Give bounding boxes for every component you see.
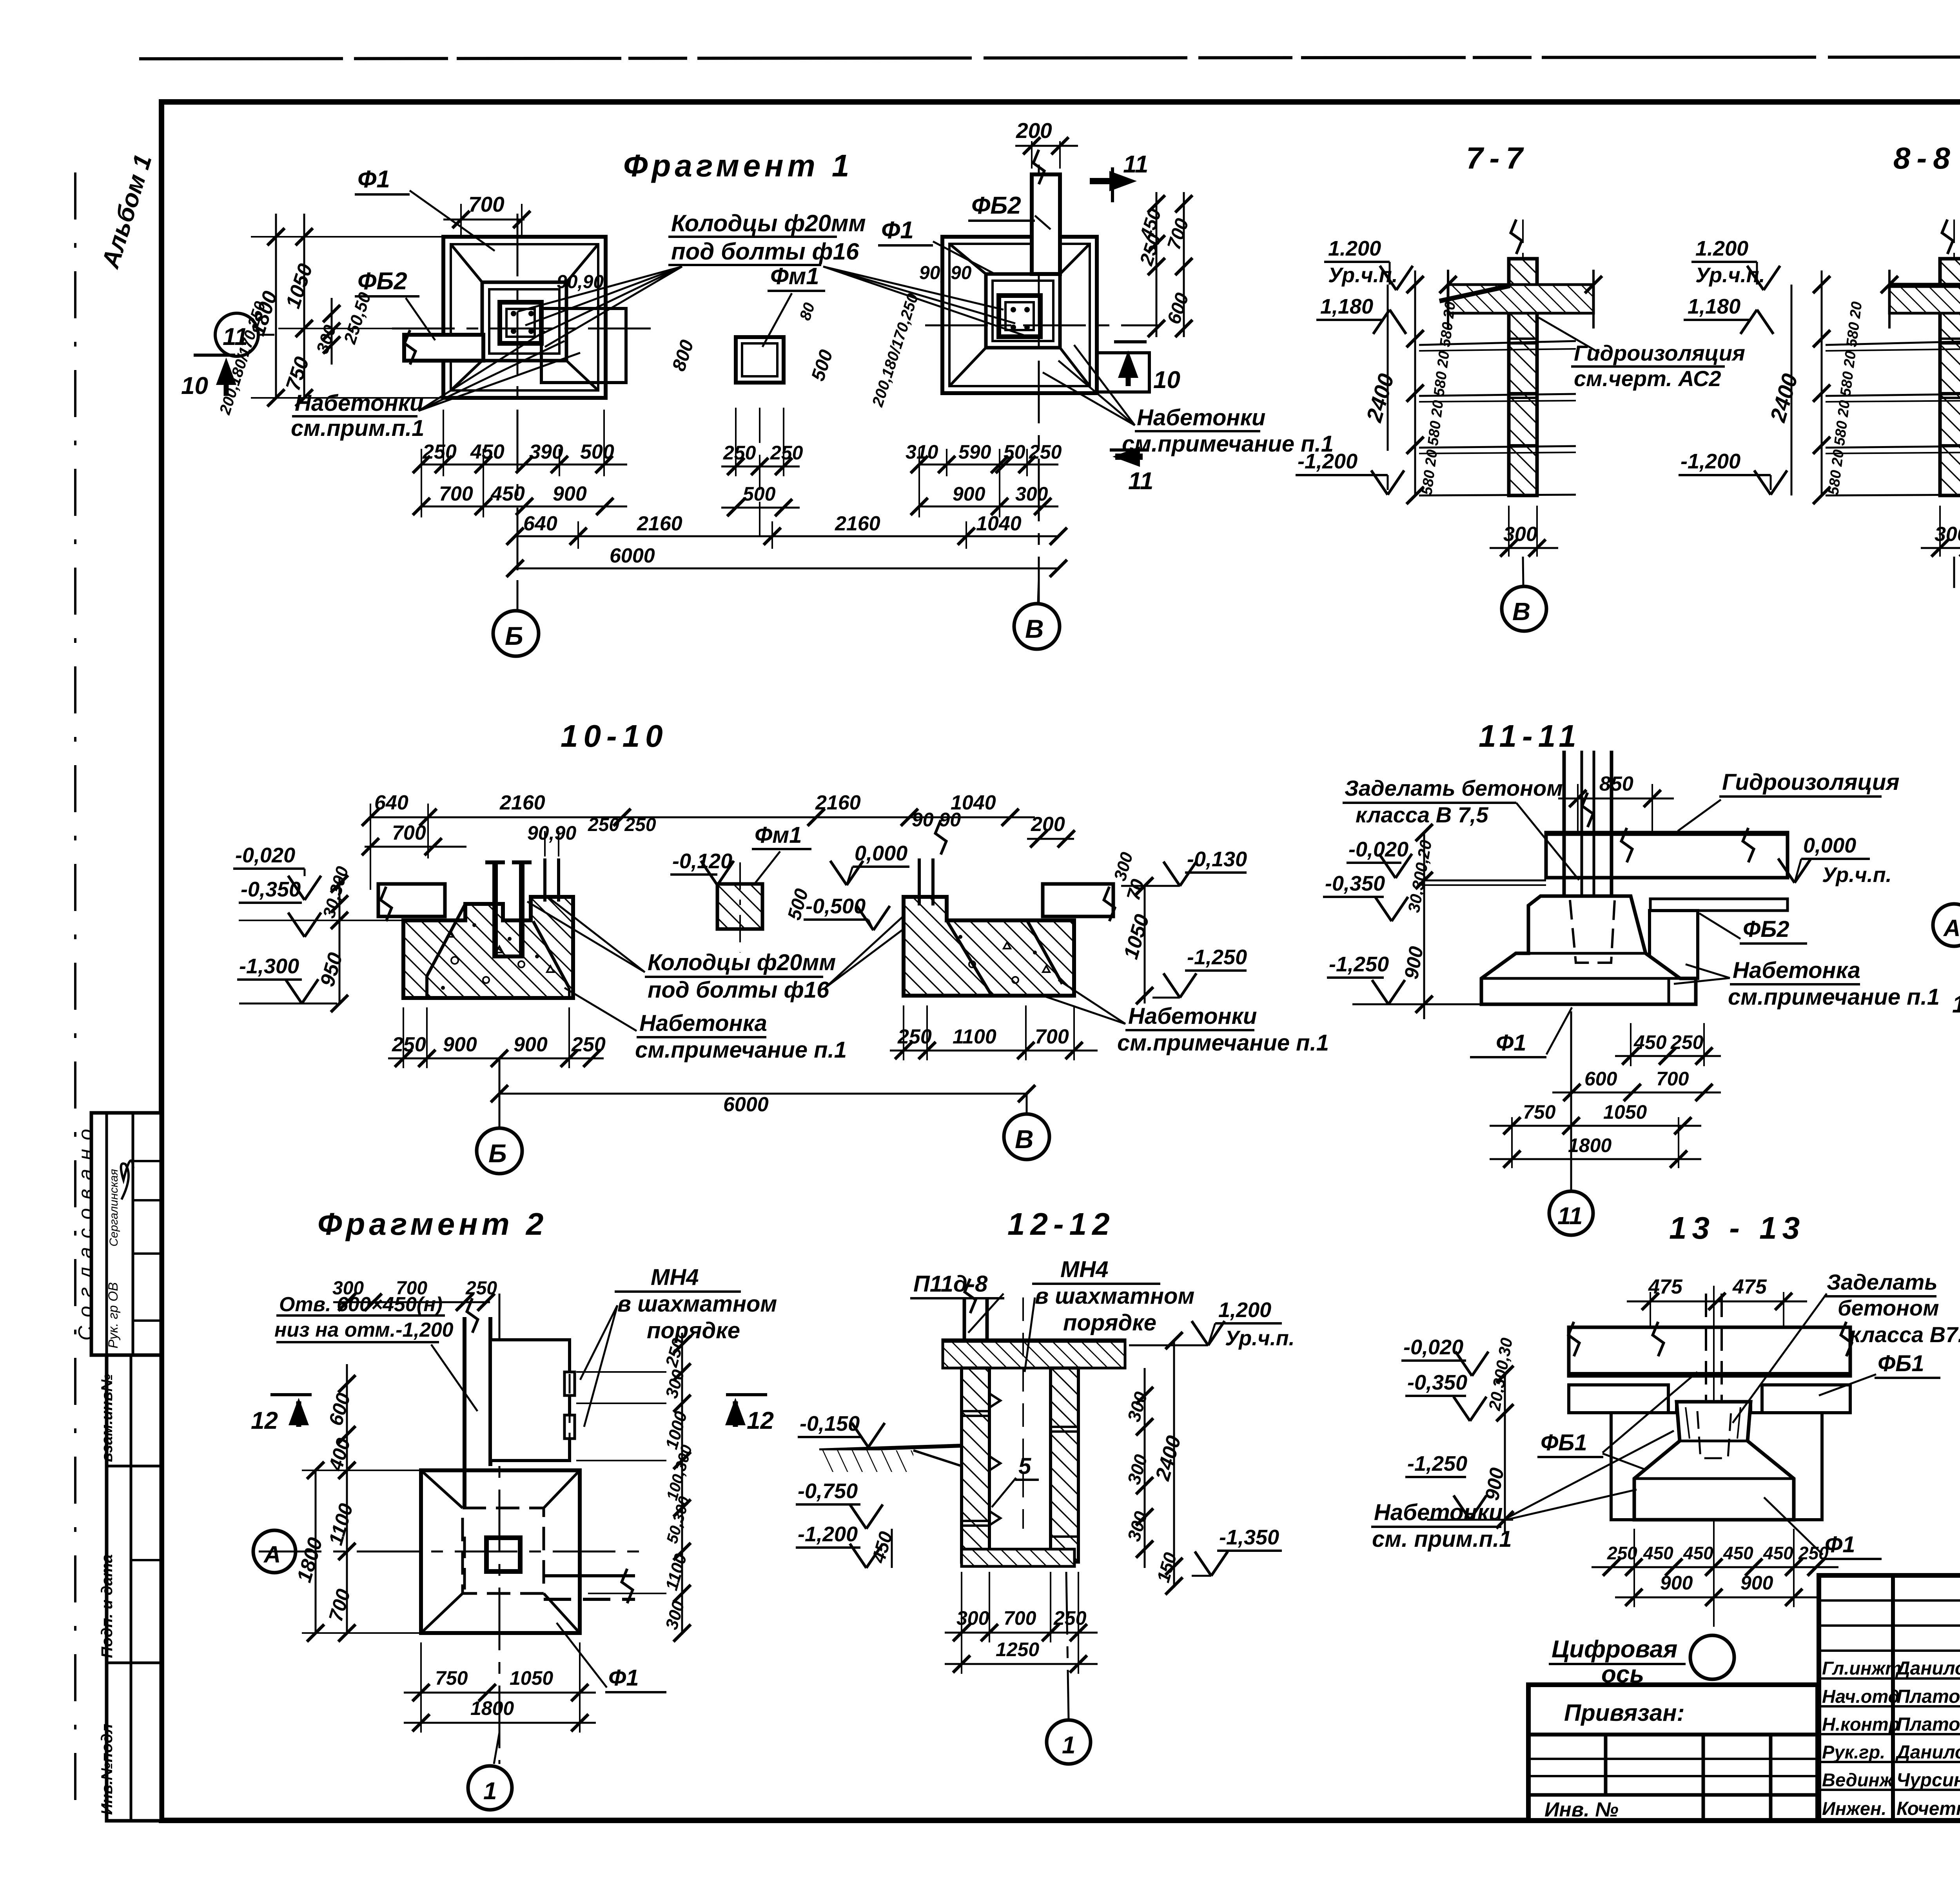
svg-text:1050: 1050 <box>510 1667 553 1689</box>
section 11-11 floor panel <box>1546 828 1788 878</box>
section 13-13 zadelat label <box>1733 1270 1960 1423</box>
svg-text:10: 10 <box>1153 367 1180 394</box>
fragment2 panel rect <box>490 1340 575 1461</box>
svg-text:2160: 2160 <box>499 791 545 814</box>
svg-text:Ф1: Ф1 <box>1496 1030 1526 1056</box>
svg-text:1100: 1100 <box>953 1025 996 1048</box>
svg-text:900: 900 <box>953 483 985 505</box>
svg-text:5: 5 <box>1018 1453 1031 1479</box>
fragment1 plan B bolt holes <box>511 311 534 334</box>
svg-text:-0,020: -0,020 <box>235 844 295 867</box>
svg-text:Гидроизоляция: Гидроизоляция <box>1722 769 1900 795</box>
svg-text:13: 13 <box>1952 991 1960 1018</box>
section 10-10 floor slab left <box>378 884 445 921</box>
svg-text:300: 300 <box>1503 523 1537 546</box>
fragment2 axis circle A <box>253 1530 296 1573</box>
svg-text:в шахматном: в шахматном <box>617 1291 777 1317</box>
fragment1 plan V FB2 vertical bar <box>1015 118 1078 274</box>
svg-text:Подп. и дата: Подп. и дата <box>98 1554 116 1658</box>
fragment2 axis circle 1 <box>468 1733 512 1810</box>
section 12-12 top slab <box>943 1340 1125 1368</box>
fragment1 plan B left dim chains <box>216 214 443 417</box>
svg-text:475: 475 <box>1648 1276 1683 1298</box>
fragment2 left dim chains <box>293 1364 421 1642</box>
section 13-13 FB1 labels <box>1537 1351 1940 1470</box>
section 10-10 axis circle V <box>1004 1094 1049 1159</box>
svg-text:в шахматном: в шахматном <box>1035 1283 1194 1309</box>
svg-text:6000: 6000 <box>723 1093 769 1116</box>
section 10-10 bottom dims <box>388 1007 1035 1116</box>
svg-text:90,90: 90,90 <box>527 822 576 844</box>
svg-text:900: 900 <box>514 1033 548 1056</box>
section 8-8 column <box>1940 220 1960 495</box>
section 13-13 left levels <box>1401 1335 1516 1533</box>
section 12-12 bottom dims <box>945 1572 1098 1674</box>
fragment2 F1 label <box>557 1623 666 1692</box>
svg-text:12: 12 <box>747 1407 774 1434</box>
svg-text:-0,020: -0,020 <box>1348 838 1408 861</box>
svg-text:850: 850 <box>1599 773 1633 795</box>
svg-text:450: 450 <box>1723 1543 1753 1563</box>
svg-text:700: 700 <box>1035 1025 1069 1048</box>
section 10-10 nabetonka label <box>564 988 847 1063</box>
svg-text:см.примечание п.1: см.примечание п.1 <box>1117 1030 1329 1056</box>
svg-text:-0,020: -0,020 <box>1403 1335 1463 1359</box>
svg-text:ФБ2: ФБ2 <box>1743 916 1789 942</box>
svg-text:250: 250 <box>770 442 803 464</box>
svg-text:Фрагмент 1: Фрагмент 1 <box>623 148 853 183</box>
svg-text:Платонова: Платонова <box>1896 1686 1960 1707</box>
svg-text:-0,350: -0,350 <box>1407 1371 1467 1394</box>
section 10-10 axis circle B <box>477 1058 522 1174</box>
svg-text:8-8: 8-8 <box>1893 141 1956 175</box>
svg-text:10-10: 10-10 <box>561 719 668 753</box>
svg-text:см.прим.п.1: см.прим.п.1 <box>291 416 424 441</box>
svg-text:250: 250 <box>897 1025 932 1048</box>
fragment1 plan B nabetonka pad <box>541 308 626 383</box>
svg-text:-1,200: -1,200 <box>1298 450 1357 473</box>
section 8-8 slab <box>1881 270 1960 328</box>
fragment 2 label <box>318 1207 547 1241</box>
fragment1 plan V right dim chain <box>1136 192 1193 337</box>
section 11-11 footing <box>1481 896 1696 1004</box>
privyazan box <box>1528 1685 1818 1821</box>
svg-text:600: 600 <box>1584 1068 1617 1090</box>
svg-text:Нач.отд: Нач.отд <box>1822 1686 1900 1707</box>
svg-text:700: 700 <box>396 1278 427 1299</box>
section 10-10 left footing block <box>403 897 573 998</box>
svg-text:1.200: 1.200 <box>1328 237 1381 260</box>
section 10-10 right nabetonki label <box>1043 980 1329 1056</box>
svg-text:500: 500 <box>743 483 776 505</box>
svg-text:Инв.№подл: Инв.№подл <box>98 1724 116 1815</box>
svg-text:900: 900 <box>1660 1572 1693 1594</box>
svg-text:250: 250 <box>571 1033 606 1056</box>
svg-text:взам.инв№: взам.инв№ <box>98 1374 116 1462</box>
fragment1 label Fm1 <box>762 263 825 347</box>
section 12-12 floor slab <box>962 1549 1074 1566</box>
svg-text:700: 700 <box>439 483 473 505</box>
svg-text:450: 450 <box>1633 1031 1667 1053</box>
section 11-11 F1 label <box>1470 1007 1572 1057</box>
svg-text:700: 700 <box>1004 1607 1036 1629</box>
svg-text:450: 450 <box>1643 1543 1673 1563</box>
fragment2 right bar <box>544 1569 635 1603</box>
section 10-10 Fm1 labels and square <box>670 822 909 953</box>
title block signature table <box>1819 1575 1960 1821</box>
section 13-13 label <box>1669 1210 1805 1245</box>
svg-text:Гл.инжт: Гл.инжт <box>1822 1658 1902 1678</box>
svg-text:Данилов: Данилов <box>1895 1658 1960 1679</box>
svg-text:700: 700 <box>392 822 426 844</box>
section 8-8 label <box>1893 141 1956 175</box>
svg-text:П11д-8: П11д-8 <box>913 1271 988 1297</box>
fragment1 plan V section marks <box>1090 151 1180 495</box>
svg-text:МН4: МН4 <box>651 1265 699 1290</box>
svg-text:0,000: 0,000 <box>1803 834 1856 857</box>
section 13-13 bolt dashed <box>1706 1286 1722 1627</box>
section 11-11 label <box>1479 719 1582 753</box>
svg-text:900: 900 <box>1740 1572 1773 1594</box>
fragment1 label nabetonki left <box>291 331 580 441</box>
fragment2 plan footing <box>421 1470 580 1633</box>
svg-text:10: 10 <box>181 372 208 399</box>
section 12-12 P11d-8 label <box>910 1271 1004 1333</box>
svg-text:Набетонка: Набетонка <box>1733 958 1860 983</box>
section 7-7 levels <box>1296 237 1413 495</box>
fragment2 bottom dims <box>404 1642 596 1733</box>
svg-text:Б: Б <box>505 621 523 650</box>
section 12-12 label <box>1007 1207 1115 1241</box>
section 12-12 label 5 <box>992 1453 1039 1507</box>
fragment1 plan B axis lines <box>392 214 651 611</box>
svg-text:300: 300 <box>1015 483 1048 505</box>
svg-text:475: 475 <box>1732 1276 1767 1298</box>
svg-text:А: А <box>1943 915 1960 941</box>
svg-text:Ф1: Ф1 <box>881 217 914 244</box>
svg-text:Привязан:: Привязан: <box>1564 1700 1684 1726</box>
svg-text:300: 300 <box>956 1607 989 1629</box>
svg-text:Сергалинская: Сергалинская <box>107 1169 120 1247</box>
fragment1 label FB2 plan V <box>968 192 1051 229</box>
svg-text:Цифровая: Цифровая <box>1552 1636 1677 1663</box>
fragment 1 label <box>623 148 853 183</box>
svg-text:200: 200 <box>1016 118 1052 143</box>
fragment1 plan V footing outline <box>942 237 1097 393</box>
svg-text:Ур.ч.п.: Ур.ч.п. <box>1822 863 1892 887</box>
svg-text:1040: 1040 <box>976 512 1022 535</box>
fragment1 plan V 90 90 dim <box>869 263 971 409</box>
fragment2 top dims <box>332 1278 497 1311</box>
svg-text:Ф1: Ф1 <box>608 1665 639 1691</box>
section 7-7 column <box>1509 220 1537 495</box>
fragment1 label F1 left <box>355 166 495 251</box>
svg-text:13 - 13: 13 - 13 <box>1669 1210 1805 1245</box>
svg-text:Заделать бетоном: Заделать бетоном <box>1345 776 1563 800</box>
svg-text:11: 11 <box>223 323 248 350</box>
svg-text:250: 250 <box>392 1033 426 1056</box>
svg-text:Б: Б <box>488 1139 507 1168</box>
svg-text:640: 640 <box>523 512 557 535</box>
section 12-12 axis circle 1 <box>1047 1572 1091 1764</box>
fragment2 axis lines <box>259 1294 651 1764</box>
section 13-13 dim 475 475 <box>1627 1276 1807 1333</box>
svg-text:6000: 6000 <box>610 544 655 567</box>
svg-text:11: 11 <box>1557 1203 1583 1230</box>
section 10-10 label <box>561 719 668 753</box>
svg-text:см.черт. АС2: см.черт. АС2 <box>1574 366 1721 391</box>
fragment1 label kolodtsy <box>517 210 1027 347</box>
section 7-7 label <box>1466 141 1529 175</box>
svg-text:700: 700 <box>468 192 505 216</box>
fragment1 plan B FB2 bar <box>404 330 483 365</box>
svg-text:Вединж: Вединж <box>1822 1769 1894 1790</box>
svg-text:590: 590 <box>958 441 991 463</box>
section 10-10 right dims <box>912 809 1247 1004</box>
svg-text:90, 90: 90, 90 <box>919 263 972 283</box>
sheet top edge dashed line <box>139 56 1960 59</box>
svg-text:450: 450 <box>490 483 525 505</box>
fragment1 plan V axis lines <box>925 165 1160 604</box>
fragment1 plan V bolt holes <box>1011 307 1030 330</box>
fragment1 axis circle B <box>493 580 539 656</box>
svg-text:250: 250 <box>723 442 756 464</box>
svg-text:В: В <box>1512 597 1530 626</box>
fragment1 section mark 10 left <box>181 355 236 399</box>
svg-text:-1,250: -1,250 <box>1187 945 1247 969</box>
svg-text:250: 250 <box>1670 1031 1704 1053</box>
section 10-10 right bottom dims <box>890 1005 1098 1060</box>
section 7-7 bottom dim 300 <box>1490 506 1558 557</box>
svg-text:-0,750: -0,750 <box>798 1479 858 1503</box>
svg-text:12-12: 12-12 <box>1007 1207 1115 1241</box>
svg-text:порядке: порядке <box>1063 1310 1156 1335</box>
section 10-10 right floor slab <box>1043 850 1137 921</box>
section 12-12 level 1200 <box>1129 1298 1295 1350</box>
svg-text:50: 50 <box>1004 441 1025 463</box>
section 12-12 right wall <box>1051 1368 1078 1562</box>
section 11-11 FB2 label <box>1699 913 1807 944</box>
svg-text:Ф1: Ф1 <box>1825 1532 1855 1557</box>
fragment1 label FB2 left <box>355 268 435 340</box>
svg-text:Заделать: Заделать <box>1827 1270 1938 1294</box>
fragment1 plan B bottom dim rows <box>413 410 1067 577</box>
section 12-12 MN4 label <box>1025 1257 1194 1372</box>
svg-text:900: 900 <box>443 1033 477 1056</box>
svg-text:см. прим.п.1: см. прим.п.1 <box>1372 1526 1512 1552</box>
svg-text:11-11: 11-11 <box>1479 719 1582 753</box>
svg-text:250: 250 <box>1798 1543 1829 1563</box>
section 11-11 levels left <box>1323 824 1482 1019</box>
section 11-11 level line -0.350 <box>1421 880 1546 885</box>
section 13-13 nabetonka block <box>1611 1402 1822 1520</box>
section 12-12 left wall <box>962 1368 989 1562</box>
svg-text:низ на отм.-1,200: низ на отм.-1,200 <box>274 1319 454 1341</box>
svg-text:300: 300 <box>1935 523 1960 546</box>
svg-text:-1,200: -1,200 <box>798 1522 858 1546</box>
svg-text:250 250: 250 250 <box>588 815 656 835</box>
section 12-12 left levels <box>796 1412 897 1568</box>
svg-text:2160: 2160 <box>835 512 880 535</box>
fragment2 section marks 12 <box>251 1395 774 1434</box>
svg-text:под болты ф16: под болты ф16 <box>648 977 829 1003</box>
svg-text:Ур.ч.п.: Ур.ч.п. <box>1225 1326 1295 1350</box>
svg-text:Фм1: Фм1 <box>770 263 819 289</box>
svg-text:Кочеткова: Кочеткова <box>1896 1798 1960 1819</box>
svg-text:Н.контр: Н.контр <box>1822 1714 1900 1735</box>
svg-text:300: 300 <box>332 1278 364 1299</box>
svg-text:12: 12 <box>251 1407 278 1434</box>
svg-text:2160: 2160 <box>637 512 682 535</box>
svg-text:Рук. гр ОВ: Рук. гр ОВ <box>106 1282 121 1348</box>
section 7-7 slab <box>1439 270 1602 328</box>
svg-text:Набетонки: Набетонки <box>295 390 423 416</box>
svg-text:класса В7.5: класса В7.5 <box>1849 1322 1960 1347</box>
fragment2 right dim chain <box>576 1333 696 1642</box>
svg-text:500: 500 <box>580 441 614 463</box>
svg-text:1,200: 1,200 <box>1218 1298 1271 1322</box>
left sidebar table B (Inv/Podp) <box>98 1355 161 1821</box>
svg-text:2160: 2160 <box>815 791 861 814</box>
svg-text:см.примечание п.1: см.примечание п.1 <box>635 1037 847 1063</box>
svg-text:Набетонки: Набетонки <box>1137 405 1265 430</box>
svg-text:Гидроизоляция: Гидроизоляция <box>1574 341 1745 365</box>
svg-text:450: 450 <box>1683 1543 1713 1563</box>
svg-text:ФБ2: ФБ2 <box>358 268 407 295</box>
svg-text:Фм1: Фм1 <box>755 822 802 848</box>
svg-text:ФБ1: ФБ1 <box>1541 1430 1587 1455</box>
svg-text:Чурсина: Чурсина <box>1896 1770 1960 1791</box>
section 10-10 kolodtsy label <box>527 898 935 1003</box>
svg-text:Рук.гр.: Рук.гр. <box>1822 1742 1885 1762</box>
svg-text:Инжен.: Инжен. <box>1822 1798 1886 1819</box>
section 13-13 top floor panel <box>1568 1322 1852 1376</box>
svg-text:390: 390 <box>529 441 563 463</box>
svg-text:1.200: 1.200 <box>1695 237 1748 260</box>
section 12-12 anchors dashed line <box>989 1297 1023 1529</box>
svg-text:А: А <box>263 1541 281 1568</box>
fragment3 axis circle A <box>1933 904 1960 946</box>
svg-text:МН4: МН4 <box>1060 1257 1108 1282</box>
svg-text:ФБ2: ФБ2 <box>971 192 1021 219</box>
svg-text:250: 250 <box>1053 1607 1087 1629</box>
section 13-13 second row panels <box>1569 1385 1850 1413</box>
section 7-7 axis circle V <box>1502 557 1546 631</box>
fragment2 label otv <box>274 1293 477 1411</box>
section 8-8 bottom dim 300 <box>1921 506 1960 588</box>
fragment1 plan V bottom dims <box>906 441 1062 517</box>
section 12-12 ground left <box>819 1446 962 1472</box>
section 11-11 nabetonka label <box>1674 958 1940 1010</box>
fragment1 label nabetonki plan V <box>1043 345 1334 457</box>
section 13-13 tsifrovaya os <box>1549 1635 1734 1688</box>
svg-text:Колодцы ф20мм: Колодцы ф20мм <box>671 210 866 236</box>
svg-text:250: 250 <box>422 441 457 463</box>
svg-text:900: 900 <box>553 483 587 505</box>
section 13-13 footing F1 <box>1634 1402 1794 1520</box>
section 10-10 bolts right part <box>545 858 559 902</box>
left sidebar table A (Soglasovano) <box>74 1113 161 1355</box>
svg-text:порядке: порядке <box>647 1318 740 1343</box>
svg-text:Инв. №: Инв. № <box>1544 1798 1619 1821</box>
section 7-7 dim chain 2400 <box>1361 270 1576 504</box>
left outer dash-dot line <box>74 172 76 1823</box>
fragment1 plan V nabetonka pad <box>1097 353 1149 392</box>
svg-text:см.примечание п.1: см.примечание п.1 <box>1728 984 1940 1010</box>
section 11-11 zadelat label <box>1343 776 1579 880</box>
svg-text:450: 450 <box>1763 1543 1793 1563</box>
section 11-11 lower right slab and nabetonka block <box>1650 899 1788 978</box>
svg-text:Ф1: Ф1 <box>358 166 390 193</box>
section 11-11 gidroizol label <box>1678 769 1900 831</box>
fragment1 plan B top dim 700 <box>443 192 530 235</box>
svg-text:Данилова: Данилова <box>1895 1742 1960 1763</box>
svg-text:7-7: 7-7 <box>1466 141 1529 175</box>
svg-text:Набетонки: Набетонки <box>1374 1500 1503 1525</box>
fragment1 section mark 11 circle left <box>215 313 274 356</box>
section 12-12 wall stub above <box>964 1279 987 1340</box>
svg-text:1800: 1800 <box>470 1697 514 1719</box>
svg-text:450: 450 <box>470 441 505 463</box>
svg-text:11: 11 <box>1123 151 1148 178</box>
svg-text:Набетонка: Набетонка <box>639 1011 767 1036</box>
svg-text:750: 750 <box>1523 1101 1556 1123</box>
section 8-8 levels <box>1679 237 1787 495</box>
fragment3 section mark 13 left <box>1952 980 1960 1018</box>
svg-text:90 90: 90 90 <box>912 809 961 831</box>
section 13-13 F1 label <box>1764 1497 1882 1559</box>
svg-text:-0,350: -0,350 <box>241 878 301 901</box>
svg-text:1: 1 <box>483 1778 497 1805</box>
svg-text:1: 1 <box>1062 1732 1075 1759</box>
svg-text:700: 700 <box>1656 1068 1689 1090</box>
svg-text:Платонова: Платонова <box>1896 1714 1960 1735</box>
svg-text:250: 250 <box>465 1278 497 1299</box>
svg-text:1250: 1250 <box>996 1639 1039 1660</box>
svg-text:Колодцы ф20мм: Колодцы ф20мм <box>648 950 836 975</box>
fragment2 label MN4 <box>580 1265 777 1427</box>
fragment1 axis circle V <box>1014 580 1060 649</box>
svg-text:1800: 1800 <box>1568 1134 1612 1156</box>
section 11-11 column above <box>1564 751 1612 956</box>
section 10-10 levels left <box>233 844 403 1003</box>
svg-text:1,180: 1,180 <box>1688 295 1740 318</box>
svg-text:В: В <box>1025 614 1044 643</box>
svg-text:-0,350: -0,350 <box>1325 872 1385 895</box>
fragment1 label F1 plan V <box>878 217 996 274</box>
album vertical label <box>96 151 157 272</box>
svg-text:640: 640 <box>374 791 408 814</box>
section 11-11 dim 850 <box>1558 773 1674 833</box>
svg-text:1,180: 1,180 <box>1320 295 1373 318</box>
section 8-8 dim chain 2400 <box>1765 270 1960 504</box>
svg-text:бетоном: бетоном <box>1838 1296 1939 1320</box>
fragment1 plan B footing outline <box>443 237 606 398</box>
svg-text:класса В 7,5: класса В 7,5 <box>1356 802 1488 827</box>
svg-text:-1,250: -1,250 <box>1329 953 1389 976</box>
svg-text:-1,200: -1,200 <box>1681 450 1740 473</box>
svg-text:-1,300: -1,300 <box>239 954 299 978</box>
section 11-11 axis circle 11 <box>1549 1011 1593 1235</box>
svg-text:В: В <box>1015 1125 1034 1154</box>
section 10-10 anchor glass <box>485 861 532 956</box>
svg-text:250: 250 <box>1029 441 1062 463</box>
svg-text:-1,350: -1,350 <box>1219 1526 1279 1549</box>
svg-text:250: 250 <box>1607 1543 1637 1563</box>
fragment2 wall strip <box>465 1298 490 1591</box>
section 10-10 top dim chains <box>362 791 1035 890</box>
svg-text:1050: 1050 <box>1603 1101 1647 1123</box>
